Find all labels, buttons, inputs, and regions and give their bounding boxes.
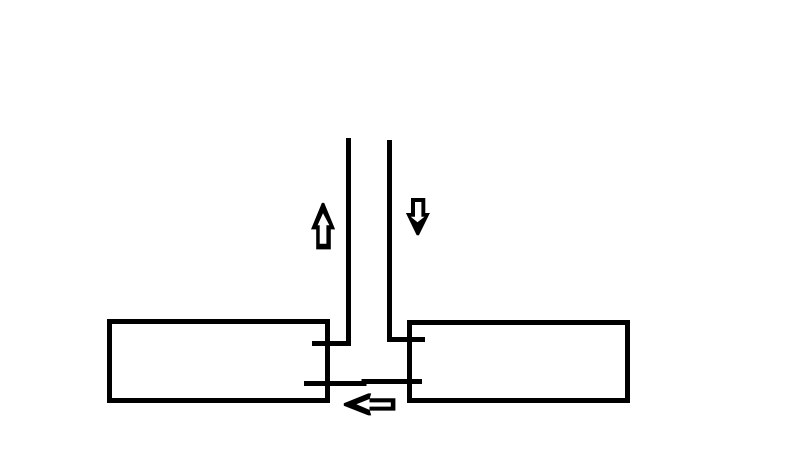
down arrow (hollow outline, flow down) — [406, 198, 430, 235]
right box — [410, 323, 628, 401]
left box — [110, 322, 328, 401]
up arrow (hollow outline, flow up) — [311, 203, 335, 250]
wire right duct wall (vertical line with foot to right) — [390, 140, 426, 340]
left arrow (hollow outline, flow left) — [344, 393, 396, 415]
wire lower horizontal connector — [304, 382, 422, 384]
wire left duct wall (vertical line with foot to left) — [312, 138, 349, 344]
